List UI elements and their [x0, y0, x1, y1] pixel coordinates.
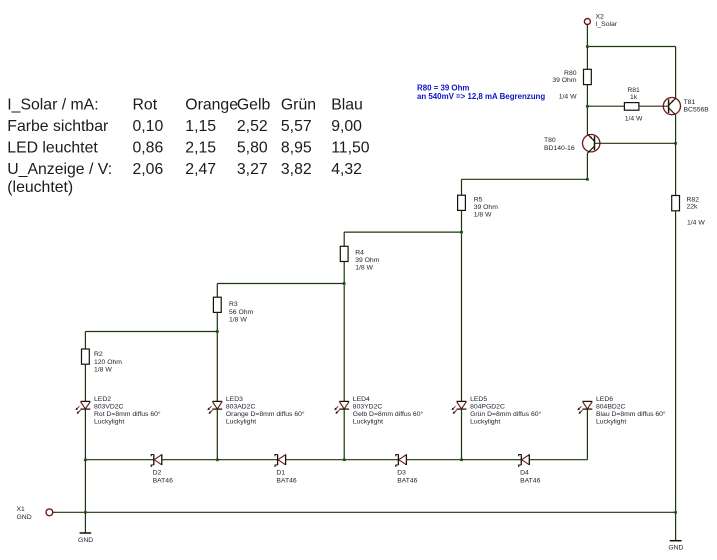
svg-text:Orange: Orange: [185, 97, 238, 114]
svg-text:803AD2C: 803AD2C: [226, 404, 256, 411]
wire junction to R82: [675, 143, 677, 195]
node R4 rail junction: [460, 231, 463, 234]
svg-text:I_Solar: I_Solar: [596, 21, 618, 28]
wire LED3 to diode row: [216, 409, 218, 460]
resistor R2: [82, 349, 123, 373]
wire R2 top rail: [85, 331, 217, 333]
svg-text:5,57: 5,57: [281, 118, 312, 135]
ground right: [668, 541, 683, 552]
LED LED2: [75, 396, 161, 426]
wire rail to R4: [343, 232, 345, 246]
wire LED2 col to bus: [84, 460, 86, 513]
svg-text:39 Ohm: 39 Ohm: [355, 257, 380, 264]
wire diode row seg3: [217, 459, 277, 461]
svg-text:39 Ohm: 39 Ohm: [552, 77, 577, 84]
node diode row col4: [460, 458, 463, 461]
svg-text:I_Solar / mA:: I_Solar / mA:: [7, 97, 98, 114]
node diode row col3: [343, 458, 346, 461]
svg-text:803VD2C: 803VD2C: [94, 404, 124, 411]
node R80/R81 junction: [586, 105, 589, 108]
LED LED6: [577, 396, 666, 426]
wire diode row seg5: [344, 459, 398, 461]
svg-text:R81: R81: [627, 87, 640, 94]
svg-text:BD140-16: BD140-16: [544, 145, 575, 152]
svg-text:1/4 W: 1/4 W: [687, 220, 705, 227]
svg-text:Orange D=8mm diffus 60°: Orange D=8mm diffus 60°: [226, 410, 305, 418]
node T81/T80 junction: [674, 142, 677, 145]
svg-text:R5: R5: [474, 196, 483, 203]
wire rail to R2: [84, 332, 86, 350]
ground left stub: [84, 512, 86, 533]
svg-text:1/4 W: 1/4 W: [625, 115, 643, 122]
svg-text:X1: X1: [17, 506, 26, 513]
svg-text:Gelb D=8mm diffus 60°: Gelb D=8mm diffus 60°: [353, 410, 424, 418]
transistor T81: [663, 98, 709, 115]
node diode row col2: [216, 458, 219, 461]
svg-text:LED4: LED4: [353, 396, 370, 403]
svg-text:803YD2C: 803YD2C: [353, 404, 383, 411]
wire T80 collector down: [586, 153, 588, 179]
svg-text:Luckylight: Luckylight: [226, 419, 256, 426]
diode D2: [151, 454, 173, 484]
node R5 rail junction: [586, 178, 589, 181]
svg-text:8,95: 8,95: [281, 140, 312, 157]
wire R2 to LED2: [84, 364, 86, 401]
svg-text:LED5: LED5: [470, 396, 487, 403]
wire LED2 to diode row: [84, 409, 86, 460]
diode D4: [519, 454, 541, 484]
wire R82 to bus: [675, 211, 677, 513]
wire rail to R5: [461, 179, 463, 195]
resistor R80: [552, 69, 591, 100]
LED LED4: [334, 396, 423, 426]
svg-text:D4: D4: [520, 470, 529, 477]
svg-text:R80 = 39 Ohm: R80 = 39 Ohm: [417, 83, 469, 92]
svg-text:1/8 W: 1/8 W: [94, 366, 112, 373]
svg-text:Rot D=8mm diffus 60°: Rot D=8mm diffus 60°: [94, 410, 161, 418]
svg-text:1,15: 1,15: [185, 118, 216, 135]
svg-text:4,32: 4,32: [331, 161, 362, 178]
resistor R5: [458, 195, 499, 218]
svg-text:1/8 W: 1/8 W: [474, 212, 492, 219]
svg-text:LED leuchtet: LED leuchtet: [7, 140, 98, 157]
svg-text:0,86: 0,86: [133, 140, 164, 157]
svg-text:BAT46: BAT46: [276, 477, 296, 484]
svg-text:2,52: 2,52: [237, 118, 268, 135]
svg-text:1k: 1k: [630, 94, 638, 101]
wire diode row seg6: [406, 459, 461, 461]
wire R3 to LED3: [216, 312, 218, 401]
svg-text:BAT46: BAT46: [397, 477, 417, 484]
svg-text:Luckylight: Luckylight: [94, 419, 124, 426]
wire diode row seg2: [162, 459, 218, 461]
svg-text:120 Ohm: 120 Ohm: [94, 359, 122, 366]
wire to R81: [587, 105, 624, 107]
node bus right: [674, 511, 677, 514]
LED LED5: [452, 396, 542, 426]
wire LED4 to diode row: [343, 409, 345, 460]
wire top rail: [587, 46, 675, 48]
wire to R80: [586, 47, 588, 70]
wire T80 base: [595, 142, 676, 144]
resistor R3: [213, 297, 253, 323]
wire diode row seg8: [529, 459, 587, 461]
svg-text:1/8 W: 1/8 W: [229, 316, 247, 323]
node top rail junction: [586, 45, 589, 48]
svg-text:BAT46: BAT46: [153, 477, 173, 484]
terminal X1: [17, 506, 53, 521]
node R2 rail junction: [216, 330, 219, 333]
wire R5 to LED5: [461, 210, 463, 401]
resistor R4: [340, 246, 379, 271]
wire diode row seg4: [286, 459, 345, 461]
svg-text:Gelb: Gelb: [237, 97, 271, 114]
svg-text:2,15: 2,15: [185, 140, 216, 157]
svg-text:T80: T80: [544, 137, 556, 144]
svg-text:3,82: 3,82: [281, 161, 312, 178]
LED LED3: [207, 396, 305, 426]
table I_Solar measurements: [7, 97, 369, 196]
svg-text:X2: X2: [596, 14, 605, 21]
svg-text:LED2: LED2: [94, 396, 111, 403]
svg-text:804PGD2C: 804PGD2C: [470, 404, 505, 411]
svg-text:R82: R82: [687, 196, 700, 203]
resistor R81: [624, 87, 643, 123]
svg-text:T81: T81: [684, 99, 696, 106]
svg-text:R4: R4: [355, 249, 364, 256]
wire LED5 to diode row: [461, 409, 463, 460]
svg-text:Grün D=8mm diffus 60°: Grün D=8mm diffus 60°: [470, 410, 541, 418]
diode D3: [396, 454, 418, 484]
svg-text:an 540mV => 12,8 mA Begrenzung: an 540mV => 12,8 mA Begrenzung: [417, 92, 545, 101]
svg-text:R3: R3: [229, 301, 238, 308]
svg-text:(leuchtet): (leuchtet): [7, 179, 73, 196]
wire R80 to T80: [586, 85, 588, 135]
wire GND bus: [53, 511, 676, 513]
svg-text:804BD2C: 804BD2C: [596, 404, 626, 411]
svg-text:D1: D1: [276, 470, 285, 477]
svg-text:1/4 W: 1/4 W: [559, 93, 577, 100]
wire X2 down: [586, 24, 588, 46]
svg-text:3,27: 3,27: [237, 161, 268, 178]
svg-text:Luckylight: Luckylight: [596, 419, 626, 426]
wire rail to R3: [216, 284, 218, 298]
svg-text:Luckylight: Luckylight: [353, 419, 383, 426]
svg-text:39 Ohm: 39 Ohm: [474, 204, 499, 211]
svg-text:D2: D2: [153, 470, 162, 477]
node bus col1: [84, 511, 87, 514]
svg-text:Blau D=8mm diffus 60°: Blau D=8mm diffus 60°: [596, 410, 666, 418]
svg-text:0,10: 0,10: [133, 118, 164, 135]
transistor T80: [544, 134, 600, 153]
svg-text:LED6: LED6: [596, 396, 613, 403]
svg-text:D3: D3: [397, 470, 406, 477]
terminal X2: [584, 14, 617, 28]
svg-text:11,50: 11,50: [331, 140, 370, 157]
note R80 limit (blue): [417, 83, 545, 101]
wire R4 to LED4: [343, 262, 345, 402]
wire R4 top rail: [344, 231, 461, 233]
svg-text:R2: R2: [94, 351, 103, 358]
wire R3 top rail: [217, 283, 344, 285]
svg-text:Rot: Rot: [133, 97, 158, 114]
svg-text:U_Anzeige / V:: U_Anzeige / V:: [7, 161, 112, 178]
diode D1: [275, 454, 297, 484]
ground left: [78, 533, 93, 544]
svg-text:Blau: Blau: [331, 97, 363, 114]
wire LED6 to diode row: [586, 409, 588, 460]
wire rail right drop: [675, 47, 677, 99]
svg-text:GND: GND: [17, 514, 32, 521]
svg-text:Luckylight: Luckylight: [470, 419, 500, 426]
wire R5 top rail: [462, 178, 588, 180]
svg-text:BAT46: BAT46: [520, 477, 540, 484]
svg-text:2,06: 2,06: [133, 161, 164, 178]
svg-text:22k: 22k: [687, 204, 699, 211]
node diode row col1: [84, 458, 87, 461]
svg-text:BC556B: BC556B: [684, 106, 710, 113]
svg-text:1/8 W: 1/8 W: [355, 265, 373, 272]
wire R81 to T81 base: [639, 105, 669, 107]
wire diode row seg7: [462, 459, 522, 461]
ground right stub: [675, 512, 677, 540]
svg-text:5,80: 5,80: [237, 140, 268, 157]
svg-text:2,47: 2,47: [185, 161, 216, 178]
svg-text:R80: R80: [564, 70, 577, 77]
svg-text:56 Ohm: 56 Ohm: [229, 309, 254, 316]
svg-text:9,00: 9,00: [331, 118, 362, 135]
node R3 rail junction: [343, 282, 346, 285]
svg-text:GND: GND: [78, 537, 93, 544]
svg-text:LED3: LED3: [226, 396, 243, 403]
wire diode row seg1: [85, 459, 153, 461]
resistor R82: [672, 196, 706, 227]
wire T81 collector down: [675, 115, 677, 143]
svg-text:GND: GND: [668, 544, 683, 551]
svg-text:Farbe sichtbar: Farbe sichtbar: [7, 118, 108, 135]
svg-text:Grün: Grün: [281, 97, 316, 114]
